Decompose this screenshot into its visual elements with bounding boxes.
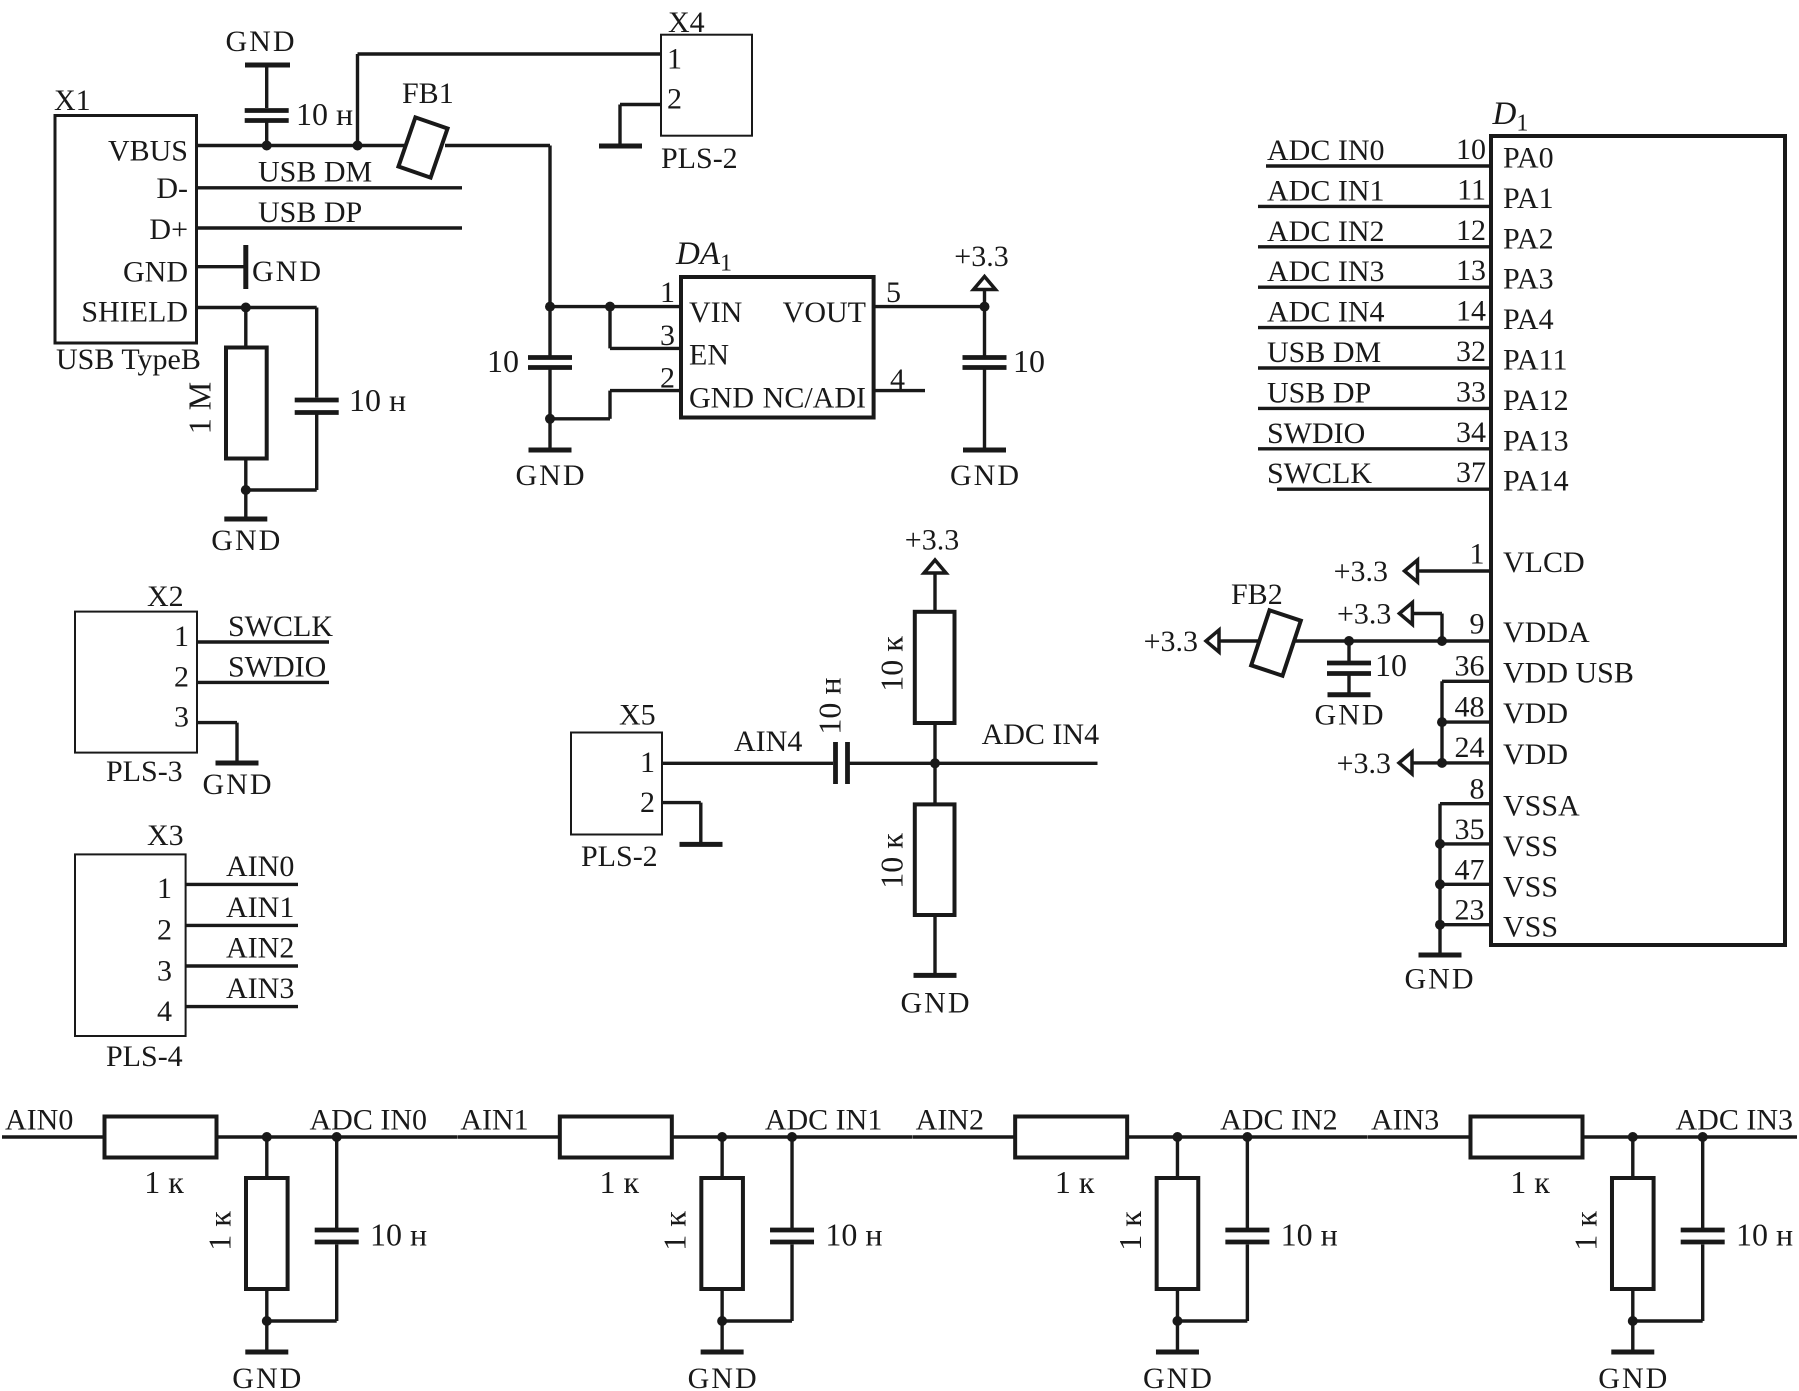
ground (cell 3) — [1598, 1321, 1669, 1391]
ground (cell 0) — [232, 1321, 303, 1391]
svg-text:ADC IN0: ADC IN0 — [1267, 134, 1385, 167]
svg-text:SWCLK: SWCLK — [228, 610, 333, 643]
capacitor 10n shunt (AIN2) — [1225, 1137, 1269, 1242]
svg-text:1: 1 — [157, 872, 172, 905]
wire DA1 VIN — [550, 305, 681, 308]
svg-text:PA12: PA12 — [1503, 384, 1569, 417]
svg-text:VIN: VIN — [689, 296, 742, 329]
ground at X4 pin2 — [599, 105, 642, 147]
ground at X5 pin2 — [680, 803, 723, 845]
connector X4 (PLS-2) body — [661, 35, 752, 136]
svg-text:14: 14 — [1456, 295, 1486, 328]
ground at X2 pin3 — [203, 723, 274, 801]
connector X1 label — [54, 84, 91, 117]
junction at R shunt (cell 2) — [1172, 1132, 1182, 1142]
wire VSS bus — [1438, 804, 1441, 955]
wire cap to divider node — [848, 762, 1098, 765]
junction at R shunt (cell 1) — [717, 1132, 727, 1142]
resistor 10k lower — [915, 804, 955, 915]
connector X3 label — [147, 819, 184, 852]
wire X4 pin1 riser — [358, 54, 662, 146]
svg-text:1: 1 — [640, 746, 655, 779]
wire ADC IN2 output — [1127, 1135, 1368, 1138]
wire AIN3 from X3 label — [226, 972, 294, 1005]
junction VSS 47 — [1435, 879, 1445, 889]
svg-text:1 к: 1 к — [1510, 1164, 1550, 1200]
svg-text:GND: GND — [252, 255, 323, 288]
svg-text:GND: GND — [950, 459, 1021, 492]
svg-text:PA4: PA4 — [1503, 303, 1554, 336]
junction at C shunt (cell 2) — [1242, 1132, 1252, 1142]
ground below VSS bus — [1405, 955, 1476, 996]
resistor 1k series (AIN3) — [1470, 1117, 1582, 1158]
svg-text:AIN2: AIN2 — [226, 932, 294, 965]
D1 pin 9 VDDA — [1223, 608, 1590, 650]
svg-text:24: 24 — [1455, 731, 1485, 764]
svg-text:DA1: DA1 — [675, 236, 732, 277]
svg-text:USB DM: USB DM — [258, 156, 372, 189]
svg-text:USB TypeB: USB TypeB — [56, 343, 201, 376]
svg-text:10: 10 — [1013, 343, 1045, 379]
net label ADC IN4 — [982, 718, 1100, 751]
svg-text:8: 8 — [1470, 773, 1485, 806]
wire ADC IN1 to D1 pin 11 — [1258, 173, 1554, 215]
wire cap to gnd node (cell 2) — [1177, 1245, 1247, 1322]
DA1 pin EN label — [689, 339, 729, 372]
svg-text:VDD: VDD — [1503, 697, 1568, 730]
svg-text:9: 9 — [1470, 608, 1485, 641]
junction VBUS at X4 branch — [353, 141, 363, 151]
svg-text:AIN3: AIN3 — [1371, 1104, 1439, 1137]
connector X5 type label — [581, 840, 658, 873]
ground below divider — [901, 915, 972, 1019]
resistor 1M — [226, 348, 267, 459]
svg-text:PA2: PA2 — [1503, 222, 1554, 255]
D1 pin 8 VSSA — [1440, 773, 1580, 823]
svg-text:VSS: VSS — [1503, 830, 1558, 863]
wire AIN0 from X3 label — [226, 850, 294, 883]
svg-text:32: 32 — [1456, 335, 1486, 368]
resistor 1k series value label (AIN0) — [144, 1164, 184, 1200]
svg-text:AIN0: AIN0 — [5, 1104, 73, 1137]
X5 pin 2 number — [640, 786, 655, 819]
X1 pin VBUS label — [108, 135, 188, 168]
svg-text:X5: X5 — [619, 699, 656, 732]
resistor 1M value label — [181, 382, 217, 434]
svg-text:1: 1 — [174, 620, 189, 653]
wire upper R to node — [933, 723, 936, 763]
wire cap to gnd node (cell 3) — [1633, 1245, 1703, 1322]
resistor 1k series value label (AIN2) — [1055, 1164, 1095, 1200]
junction VOUT — [980, 302, 990, 312]
connector X3 (PLS-4) body — [75, 854, 186, 1036]
resistor 1k series (AIN0) — [105, 1117, 217, 1158]
svg-text:X3: X3 — [147, 819, 184, 852]
svg-text:GND: GND — [226, 25, 297, 58]
svg-text:AIN3: AIN3 — [226, 972, 294, 1005]
svg-text:USB DM: USB DM — [1267, 336, 1381, 369]
power +3.3 branch to VDDA — [1337, 598, 1442, 642]
capacitor 10 at DA1 input — [528, 355, 572, 368]
connector X1 (USB TypeB) body — [55, 116, 197, 344]
junction at C shunt (cell 1) — [787, 1132, 797, 1142]
svg-text:VDDA: VDDA — [1503, 616, 1590, 649]
resistor 10k upper value label — [873, 636, 909, 692]
svg-text:PA14: PA14 — [1503, 465, 1569, 498]
svg-text:1 к: 1 к — [1112, 1211, 1148, 1251]
svg-text:10 н: 10 н — [1736, 1217, 1793, 1253]
ground below VDDA cap — [1315, 676, 1386, 732]
connector X1 type label — [56, 343, 201, 376]
svg-text:2: 2 — [157, 913, 172, 946]
wire R 1M to junction — [244, 459, 247, 491]
D1 pin 1 VLCD — [1421, 538, 1585, 580]
wire AIN3 input — [1368, 1135, 1471, 1138]
svg-text:D1: D1 — [1492, 96, 1529, 137]
capacitor 10n shunt (AIN1) — [770, 1137, 814, 1242]
ground below DA1 input cap — [516, 419, 587, 492]
wire node to lower R — [933, 763, 936, 804]
regulator DA1 body — [681, 277, 874, 418]
ferrite bead FB1 — [398, 117, 447, 177]
wire USB DM net label — [258, 156, 372, 189]
junction at C shunt (cell 3) — [1698, 1132, 1708, 1142]
svg-text:VDD: VDD — [1503, 738, 1568, 771]
connector X3 type label — [106, 1040, 183, 1073]
net label ADC IN1 — [765, 1104, 883, 1137]
junction gnd node (cell 3) — [1628, 1316, 1638, 1326]
power +3.3 at FB2 input — [1144, 625, 1223, 658]
wire USB DP to D1 pin 33 — [1258, 375, 1569, 417]
svg-text:VBUS: VBUS — [108, 135, 188, 168]
wire SHIELD — [196, 306, 317, 309]
svg-text:1: 1 — [1470, 538, 1485, 571]
wire X4 pin2 — [620, 103, 661, 106]
svg-text:USB DP: USB DP — [258, 196, 362, 229]
wire shield cap branch — [315, 308, 318, 398]
svg-text:10 к: 10 к — [873, 636, 909, 692]
D1 pin 23 VSS — [1440, 894, 1558, 944]
svg-text:+3.3: +3.3 — [1334, 555, 1388, 588]
wire X5 pin2 — [662, 801, 701, 804]
svg-text:ADC IN4: ADC IN4 — [982, 718, 1100, 751]
connector X4 type label — [661, 142, 738, 175]
X4 pin 2 number — [667, 83, 682, 116]
svg-text:ADC IN2: ADC IN2 — [1267, 215, 1385, 248]
wire DA1 VOUT — [874, 305, 985, 308]
svg-text:VLCD: VLCD — [1503, 546, 1585, 579]
svg-text:ADC IN0: ADC IN0 — [310, 1104, 428, 1137]
wire AIN1 input — [457, 1135, 560, 1138]
svg-text:2: 2 — [667, 83, 682, 116]
wire USB DP — [196, 226, 462, 229]
svg-text:PA0: PA0 — [1503, 142, 1554, 175]
ferrite bead FB1 label — [402, 77, 454, 110]
svg-text:FB2: FB2 — [1231, 578, 1283, 611]
X1 pin GND label — [123, 256, 188, 289]
wire AIN4 from X5 — [662, 762, 833, 765]
wire ADC IN0 output — [217, 1135, 458, 1138]
wire cap to gnd junction — [548, 370, 551, 419]
connector X4 label — [668, 6, 705, 39]
svg-text:PLS-3: PLS-3 — [106, 755, 183, 788]
svg-text:AIN0: AIN0 — [226, 850, 294, 883]
junction at R shunt (cell 0) — [262, 1132, 272, 1142]
svg-text:FB1: FB1 — [402, 77, 454, 110]
wire to shunt R (cell 2) — [1176, 1137, 1179, 1178]
wire VBUS from X1 to FB1 — [196, 144, 410, 147]
ground (cell 1) — [688, 1321, 759, 1391]
wire ADC IN4 to D1 pin 14 — [1258, 295, 1554, 337]
svg-text:GND: GND — [232, 1362, 303, 1391]
wire SHIELD to R 1M — [244, 308, 247, 348]
wire AIN0 from X3 — [186, 883, 298, 886]
D1 pin 47 VSS — [1440, 853, 1558, 903]
capacitor 10 input value label — [487, 343, 519, 379]
capacitor 10n shunt (AIN3) — [1681, 1137, 1725, 1242]
wire EN branch — [610, 307, 681, 349]
net label AIN2 — [916, 1104, 984, 1137]
junction at R shunt (cell 3) — [1628, 1132, 1638, 1142]
svg-text:10 н: 10 н — [1281, 1217, 1338, 1253]
resistor 1k shunt (AIN0) — [246, 1178, 288, 1289]
junction VIN left — [545, 302, 555, 312]
svg-text:10: 10 — [487, 343, 519, 379]
svg-text:SWDIO: SWDIO — [1267, 417, 1365, 450]
svg-text:+3.3: +3.3 — [905, 524, 959, 557]
X1 pin D+ label — [149, 213, 188, 246]
svg-text:10 н: 10 н — [825, 1217, 882, 1253]
X3 pin 4 number — [157, 995, 172, 1028]
power +3.3 above divider — [905, 524, 959, 612]
svg-text:SWDIO: SWDIO — [228, 650, 326, 683]
resistor 1k shunt value label (AIN3) — [1567, 1211, 1603, 1251]
capacitor 10 at VDDA — [1327, 641, 1371, 674]
resistor 1k shunt (AIN2) — [1157, 1178, 1199, 1289]
wire AIN3 from X3 — [186, 1005, 298, 1008]
svg-text:GND: GND — [1143, 1362, 1214, 1391]
DA1 pin 3 number — [660, 319, 675, 352]
DA1 pin NC/ADI label — [763, 381, 866, 414]
DA1 pin 1 number — [660, 276, 675, 309]
X2 pin 3 number — [174, 701, 189, 734]
wire AIN1 from X3 label — [226, 891, 294, 924]
ground at X1 GND pin — [196, 245, 323, 289]
svg-text:VSS: VSS — [1503, 911, 1558, 944]
junction DA1 input gnd — [545, 414, 555, 424]
DA1 pin 5 number — [886, 276, 901, 309]
X1 pin SHIELD label — [81, 296, 188, 329]
wire USB DM — [196, 186, 462, 189]
svg-text:5: 5 — [886, 276, 901, 309]
resistor 1k shunt (AIN1) — [701, 1178, 743, 1289]
connector X2 label — [147, 580, 184, 613]
wire AIN1 from X3 — [186, 924, 298, 927]
junction divider node — [930, 758, 940, 768]
capacitor 10n shunt value label (AIN3) — [1736, 1217, 1793, 1253]
svg-text:GND: GND — [123, 256, 188, 289]
svg-text:10 н: 10 н — [296, 96, 353, 132]
ground GND above C1 — [226, 25, 297, 108]
wire shunt R to gnd node (cell 0) — [265, 1289, 268, 1321]
junction VSS 35 — [1435, 839, 1445, 849]
DA1 pin 2 number — [660, 362, 675, 395]
resistor 1k shunt (AIN3) — [1612, 1178, 1654, 1289]
svg-text:PLS-4: PLS-4 — [106, 1040, 183, 1073]
svg-text:PA13: PA13 — [1503, 424, 1569, 457]
D1 pin 48 VDD — [1442, 691, 1568, 731]
svg-text:SWCLK: SWCLK — [1267, 457, 1372, 490]
svg-text:ADC IN1: ADC IN1 — [765, 1104, 883, 1137]
wire ADC IN3 output — [1582, 1135, 1797, 1138]
X2 pin 1 number — [174, 620, 189, 653]
junction VDD 48 — [1437, 717, 1447, 727]
wire shunt R to gnd node (cell 3) — [1631, 1289, 1634, 1321]
svg-text:PLS-2: PLS-2 — [661, 142, 738, 175]
junction below R 1M — [241, 485, 251, 495]
capacitor 10n series value label — [811, 677, 847, 734]
svg-text:PA3: PA3 — [1503, 263, 1554, 296]
ground (cell 2) — [1143, 1321, 1214, 1391]
svg-text:ADC IN3: ADC IN3 — [1267, 255, 1385, 288]
wire shunt R to gnd node (cell 2) — [1176, 1289, 1179, 1321]
svg-text:3: 3 — [157, 954, 172, 987]
ground below DA1 output cap — [950, 450, 1021, 492]
svg-text:AIN1: AIN1 — [460, 1104, 528, 1137]
junction SHIELD — [241, 303, 251, 313]
resistor 10k upper — [915, 612, 955, 723]
wire USB DP net label — [258, 196, 362, 229]
MCU D1 designator — [1492, 96, 1529, 137]
wire output cap to gnd — [983, 370, 986, 451]
junction at C shunt (cell 0) — [332, 1132, 342, 1142]
junction gnd node (cell 0) — [262, 1316, 272, 1326]
junction VIN EN branch — [605, 302, 615, 312]
X3 pin 2 number — [157, 913, 172, 946]
wire to shunt R (cell 3) — [1631, 1137, 1634, 1178]
svg-text:+3.3: +3.3 — [1337, 598, 1391, 631]
X5 pin 1 number — [640, 746, 655, 779]
svg-text:1 к: 1 к — [1055, 1164, 1095, 1200]
svg-text:10: 10 — [1456, 133, 1486, 166]
junction VDDA riser — [1437, 636, 1447, 646]
junction gnd node (cell 1) — [717, 1316, 727, 1326]
resistor 1k shunt value label (AIN0) — [201, 1211, 237, 1251]
wire FB1 to DA1 VIN riser — [445, 146, 550, 356]
svg-text:+3.3: +3.3 — [954, 240, 1008, 273]
power +3.3 at VLCD — [1334, 555, 1421, 588]
connector X2 type label — [106, 755, 183, 788]
DA1 pin VIN label — [689, 296, 742, 329]
D1 pin 35 VSS — [1440, 813, 1558, 863]
X2 pin 2 number — [174, 661, 189, 694]
svg-text:1 к: 1 к — [600, 1164, 640, 1200]
capacitor 10n value label — [296, 96, 353, 132]
svg-text:ADC IN2: ADC IN2 — [1220, 1104, 1338, 1137]
capacitor 10n series AIN4 — [836, 742, 848, 784]
capacitor 10 at DA1 output — [963, 307, 1007, 368]
svg-text:VDD USB: VDD USB — [1503, 656, 1634, 689]
wire ADC IN2 to D1 pin 12 — [1258, 214, 1554, 256]
svg-text:10 к: 10 к — [873, 833, 909, 889]
svg-text:48: 48 — [1455, 691, 1485, 724]
wire SWCLK to D1 pin 37 — [1267, 456, 1569, 498]
svg-text:AIN2: AIN2 — [916, 1104, 984, 1137]
junction VDD 24 — [1437, 758, 1447, 768]
X3 pin 3 number — [157, 954, 172, 987]
capacitor 10n shunt value label (AIN0) — [370, 1217, 427, 1253]
capacitor 10n at SHIELD — [295, 400, 339, 413]
wire SWCLK from X2 — [197, 640, 329, 643]
svg-text:AIN1: AIN1 — [226, 891, 294, 924]
resistor 10k lower value label — [873, 833, 909, 889]
capacitor 10n at VBUS — [245, 111, 289, 146]
net label ADC IN2 — [1220, 1104, 1338, 1137]
svg-text:GND: GND — [1315, 699, 1386, 732]
DA1 pin GND label — [689, 381, 754, 414]
svg-text:2: 2 — [174, 661, 189, 694]
wire AIN2 from X3 label — [226, 932, 294, 965]
svg-text:1 М: 1 М — [181, 382, 217, 434]
svg-text:PA1: PA1 — [1503, 182, 1554, 215]
net label AIN0 — [5, 1104, 73, 1137]
svg-text:GND: GND — [1598, 1362, 1669, 1391]
svg-text:1 к: 1 к — [657, 1211, 693, 1251]
wire ADC IN3 to D1 pin 13 — [1258, 254, 1554, 296]
svg-text:10 н: 10 н — [370, 1217, 427, 1253]
svg-text:47: 47 — [1455, 853, 1485, 886]
resistor 1k shunt value label (AIN2) — [1112, 1211, 1148, 1251]
svg-text:NC/ADI: NC/ADI — [763, 381, 866, 414]
net label AIN1 — [460, 1104, 528, 1137]
wire AIN2 input — [913, 1135, 1016, 1138]
svg-text:34: 34 — [1456, 416, 1486, 449]
wire to shunt R (cell 0) — [265, 1137, 268, 1178]
wire SWDIO to D1 pin 34 — [1258, 416, 1569, 458]
capacitor 10 VDDA value label — [1375, 647, 1407, 683]
svg-text:PA11: PA11 — [1503, 344, 1567, 377]
wire shunt R to gnd node (cell 1) — [720, 1289, 723, 1321]
svg-text:GND: GND — [516, 459, 587, 492]
svg-text:36: 36 — [1455, 650, 1485, 683]
net label ADC IN3 — [1675, 1104, 1793, 1137]
regulator DA1 designator — [675, 236, 732, 277]
power +3.3 at VDD 24 — [1337, 747, 1442, 780]
svg-text:1: 1 — [667, 43, 682, 76]
svg-text:13: 13 — [1456, 254, 1486, 287]
D1 pin 24 VDD — [1442, 731, 1568, 771]
svg-text:D-: D- — [156, 172, 188, 205]
svg-text:10 н: 10 н — [349, 382, 406, 418]
svg-text:10: 10 — [1375, 647, 1407, 683]
resistor 1k series value label (AIN3) — [1510, 1164, 1550, 1200]
svg-text:ADC IN4: ADC IN4 — [1267, 296, 1385, 329]
ground below R 1M — [211, 490, 282, 557]
svg-text:4: 4 — [157, 995, 172, 1028]
wire SWDIO from X2 — [197, 681, 329, 684]
svg-text:D+: D+ — [149, 213, 188, 246]
capacitor 10n shunt value label (AIN1) — [825, 1217, 882, 1253]
ferrite bead FB2 label — [1231, 578, 1283, 611]
capacitor 10n shunt value label (AIN2) — [1281, 1217, 1338, 1253]
svg-text:USB DP: USB DP — [1267, 376, 1371, 409]
svg-text:3: 3 — [174, 701, 189, 734]
X4 pin 1 number — [667, 43, 682, 76]
svg-text:1 к: 1 к — [201, 1211, 237, 1251]
wire cap to junction — [246, 415, 317, 491]
svg-text:10 н: 10 н — [811, 677, 847, 734]
wire cap to gnd node (cell 0) — [267, 1245, 337, 1322]
